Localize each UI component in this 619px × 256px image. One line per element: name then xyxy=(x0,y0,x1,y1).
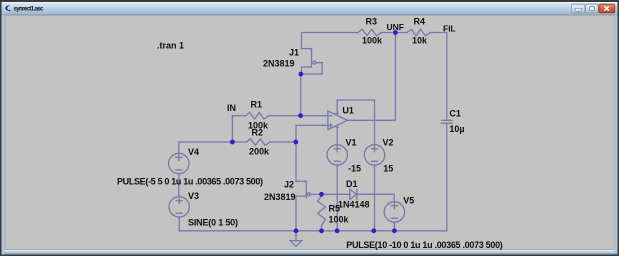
svg-text:IN: IN xyxy=(227,103,236,113)
svg-text:R4: R4 xyxy=(414,17,426,27)
svg-text:UNF: UNF xyxy=(387,22,404,32)
svg-text:U1: U1 xyxy=(342,106,354,116)
svg-text:V4: V4 xyxy=(188,147,199,157)
svg-text:2N3819: 2N3819 xyxy=(263,59,295,69)
svg-text:-15: -15 xyxy=(348,164,361,174)
svg-text:.tran 1: .tran 1 xyxy=(157,41,184,51)
svg-text:V3: V3 xyxy=(188,191,199,201)
svg-text:J1: J1 xyxy=(289,48,299,58)
svg-text:2N3819: 2N3819 xyxy=(264,192,296,202)
svg-text:J2: J2 xyxy=(284,180,294,190)
svg-text:PULSE(-5 5 0 1u 1u .00365 .007: PULSE(-5 5 0 1u 1u .00365 .0073 500) xyxy=(117,176,263,186)
svg-text:R2: R2 xyxy=(252,128,264,138)
svg-text:D1: D1 xyxy=(346,179,358,189)
svg-text:SINE(0 1 50): SINE(0 1 50) xyxy=(188,218,238,228)
svg-text:15: 15 xyxy=(383,164,393,174)
svg-text:R5: R5 xyxy=(329,204,341,214)
svg-text:C1: C1 xyxy=(449,109,461,119)
svg-text:100k: 100k xyxy=(329,215,350,225)
svg-text:1N4148: 1N4148 xyxy=(338,200,370,210)
svg-text:V1: V1 xyxy=(346,138,357,148)
svg-text:FIL: FIL xyxy=(443,24,456,34)
svg-text:V2: V2 xyxy=(383,138,394,148)
svg-text:100k: 100k xyxy=(362,36,383,46)
svg-text:PULSE(10 -10 0 1u 1u .00365 .0: PULSE(10 -10 0 1u 1u .00365 .0073 500) xyxy=(346,240,503,250)
svg-text:R3: R3 xyxy=(366,17,378,27)
svg-text:R1: R1 xyxy=(251,100,263,110)
svg-text:V5: V5 xyxy=(403,196,414,206)
svg-text:10µ: 10µ xyxy=(449,124,464,134)
svg-text:200k: 200k xyxy=(249,147,270,157)
svg-text:synrect1.asc: synrect1.asc xyxy=(14,7,45,13)
svg-text:10k: 10k xyxy=(412,36,428,46)
